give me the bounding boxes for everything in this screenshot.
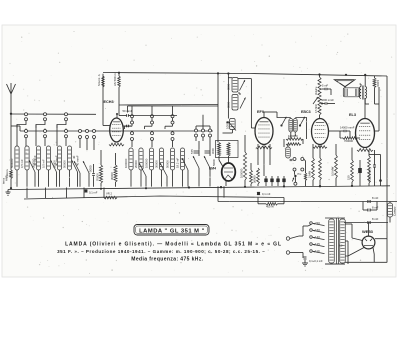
- junction dots ground bus more: [10, 187, 12, 189]
- svg-text:5000: 5000: [89, 165, 93, 172]
- wire IF1 winding tops: [228, 77, 232, 79]
- IF2 winding primary: [289, 119, 293, 133]
- resistor R EF9 screen: [257, 168, 260, 184]
- IF2 trimmer a: [282, 117, 287, 126]
- transformer core: [336, 218, 338, 264]
- wire HT line 2: [344, 222, 388, 224]
- svg-text:0,1 mF: 0,1 mF: [262, 192, 271, 196]
- svg-text:20000: 20000: [134, 160, 138, 168]
- switch PU arrow: [292, 178, 294, 182]
- switch contact S3a: [65, 113, 68, 116]
- switch contact S4b: [86, 130, 89, 133]
- svg-text:5000 mmF: 5000 mmF: [321, 98, 334, 102]
- wire rectifier cathode right: [375, 238, 387, 240]
- trimmer capacitor T5: [83, 161, 89, 173]
- resistor R EF9 cathode: [243, 152, 246, 180]
- transformer primary winding: [329, 219, 335, 263]
- svg-text:150: 150: [347, 175, 351, 180]
- capacitor block row: [265, 176, 267, 186]
- tube EL3 envelope: [356, 119, 375, 148]
- wire PU right: [304, 159, 306, 173]
- svg-text:0,5 mF: 0,5 mF: [42, 159, 46, 168]
- switch contact S2b: [44, 130, 47, 133]
- svg-text:575: 575: [190, 149, 194, 154]
- capacitor 5000 mmF: [324, 102, 326, 104]
- junction main bus: [257, 192, 260, 195]
- choke antenna lead: [10, 170, 13, 179]
- wire IF2 top feed: [277, 112, 291, 118]
- tube WE53 envelope: [362, 236, 375, 249]
- ground mains filter: [304, 260, 306, 263]
- oscillator coil shield box: [216, 141, 239, 158]
- coil L8: [139, 148, 143, 170]
- resistor R det 1: [286, 138, 303, 141]
- svg-text:2 MW: 2 MW: [308, 171, 312, 178]
- svg-text:8 mF: 8 mF: [372, 206, 379, 210]
- coil L2: [25, 146, 29, 170]
- resistor R det 2: [286, 143, 301, 146]
- wire field resistor down: [374, 88, 376, 105]
- svg-text:700000: 700000: [344, 139, 353, 143]
- svg-text:50000: 50000: [253, 175, 257, 183]
- svg-text:100000: 100000: [124, 158, 128, 168]
- switch contact S7a: [171, 115, 174, 118]
- wire osc col stub 132: [131, 106, 133, 115]
- wire top HT bus: [103, 73, 387, 77]
- svg-text:EBC3: EBC3: [301, 110, 311, 114]
- wire lower bus: [24, 196, 284, 199]
- trimmer capacitor T2: [51, 160, 57, 172]
- svg-text:50000: 50000: [53, 160, 57, 168]
- IF1 winding c: [230, 119, 236, 130]
- resistor R EL3 cathode: [351, 160, 354, 182]
- svg-text:400 W: 400 W: [266, 205, 274, 209]
- choke RF top left: [102, 76, 105, 87]
- svg-text:VR 2: VR 2: [106, 192, 112, 196]
- choke filter field coil: [388, 203, 393, 217]
- svg-text:0,1+0,1 mF: 0,1+0,1 mF: [309, 259, 323, 263]
- wire EF9 grid: [251, 127, 255, 129]
- wire antenna down-lead lower: [10, 179, 12, 189]
- wire EM4 feeds: [221, 165, 224, 166]
- resistor R EL3 grid: [343, 137, 357, 140]
- capacitor 8 mF c: [367, 221, 369, 224]
- svg-text:5000 mmF: 5000 mmF: [368, 168, 372, 182]
- antenna A1: [7, 84, 12, 94]
- switch contact S4a: [79, 130, 82, 133]
- wire osc coil bottoms: [218, 156, 220, 160]
- wire secondary center tap: [345, 240, 348, 242]
- wire choke links: [389, 202, 391, 204]
- resistor R EBC3 cathode: [312, 158, 315, 180]
- capacitor 50 mmF osc grid: [126, 114, 128, 117]
- junction dots bus: [220, 186, 222, 188]
- wire osc coupling: [217, 141, 219, 143]
- wire right lower vertical: [386, 202, 388, 263]
- IF1 winding a: [232, 78, 238, 93]
- svg-text:14000 mmF: 14000 mmF: [340, 126, 355, 130]
- title box: [134, 225, 209, 236]
- svg-text:0,5 mF: 0,5 mF: [20, 159, 24, 168]
- wire IF1 winding c bottom: [231, 130, 233, 134]
- choke detector: [286, 147, 291, 158]
- wire rectifier cathode out: [368, 223, 370, 237]
- switch contact S1b: [25, 130, 28, 133]
- wire coil group 1 bottoms: [38, 170, 40, 187]
- svg-text:30000: 30000: [110, 172, 114, 180]
- jack PU bottom terminal: [294, 182, 297, 185]
- svg-text:70000: 70000: [96, 173, 100, 181]
- resistor R PU: [304, 173, 306, 181]
- wire rectifier heater a: [345, 248, 364, 257]
- svg-text:0,5 MW: 0,5 MW: [331, 166, 335, 176]
- wire osc col stub 172.5: [172, 106, 174, 115]
- svg-text:5000: 5000: [212, 159, 216, 166]
- mains plug terminals: [286, 237, 289, 240]
- junction dots top bus: [118, 72, 120, 74]
- capacitor 0,1 mF bus: [257, 191, 260, 193]
- wire S4 drops: [79, 138, 81, 148]
- svg-text:Volume: Volume: [315, 86, 318, 95]
- potentiometer volume: [318, 77, 321, 115]
- coil L1: [15, 146, 19, 170]
- wire mains leads: [299, 235, 303, 237]
- wire EF9 anode: [263, 112, 265, 118]
- svg-text:8 mF: 8 mF: [372, 196, 379, 200]
- wire osc coil group 1: [151, 170, 153, 187]
- switch contact S3b: [65, 130, 68, 133]
- capacitor det: [289, 159, 291, 161]
- resistor mains dropper: [266, 203, 278, 206]
- svg-text:0,1 mF: 0,1 mF: [89, 191, 98, 195]
- switch contact S6b: [151, 132, 154, 135]
- switch contact S4c: [93, 130, 96, 133]
- mains switch: [290, 236, 299, 239]
- wire EL3 anode: [364, 98, 366, 119]
- wire IF2 secondary down: [306, 132, 308, 140]
- output transformer secondary: [365, 87, 367, 99]
- svg-text:500000: 500000: [10, 158, 14, 168]
- tube EBC3 heater: [313, 146, 327, 149]
- wire rectifier anode feed: [345, 223, 352, 225]
- svg-text:ECH3: ECH3: [104, 100, 114, 104]
- wire grid bus A y114: [11, 113, 96, 115]
- capacitor 5 mF tone: [324, 88, 326, 90]
- junction ECH3 anode: [116, 113, 118, 115]
- svg-text:EM4: EM4: [209, 167, 216, 171]
- svg-text:100000: 100000: [288, 134, 298, 138]
- wire selector to primary: [308, 225, 311, 227]
- junction PU: [294, 175, 296, 177]
- wire osc col 132: [131, 118, 133, 122]
- IF1 trimmer c: [228, 122, 236, 131]
- svg-text:0,5 MW: 0,5 MW: [315, 104, 318, 113]
- IF1 trimmer a: [240, 80, 246, 91]
- trimmer capacitor T3: [72, 160, 78, 172]
- wire column 45: [35, 125, 37, 147]
- wire column 66: [56, 125, 58, 147]
- wire IF1 feed vertical: [217, 74, 219, 143]
- wire IF1 links: [238, 78, 251, 80]
- wire osc cluster top: [196, 125, 210, 127]
- trimmer capacitor T8: [182, 158, 188, 170]
- svg-text:Media frequenza: 475 kHz.: Media frequenza: 475 kHz.: [131, 256, 203, 262]
- wire osc row link: [131, 115, 177, 117]
- svg-text:3000: 3000: [211, 148, 215, 154]
- IF1 trimmer b: [240, 98, 246, 109]
- trimmer capacitor T1: [29, 160, 35, 172]
- capacitor filter 8 mF a: [367, 200, 369, 203]
- wire ECH3 anode stub: [116, 115, 118, 119]
- svg-text:50000: 50000: [63, 160, 67, 168]
- tube EF9 heater: [256, 146, 272, 149]
- IF1 winding b: [232, 95, 238, 111]
- svg-text:LAMDA (Olivieri e Glisenti).: LAMDA (Olivieri e Glisenti). — Modelli «…: [65, 241, 282, 247]
- resistor R EBC3 grid leak: [319, 158, 322, 180]
- coil L6: [67, 146, 71, 170]
- wire osc col 152: [151, 118, 153, 122]
- wire EM4 bottom: [225, 181, 227, 186]
- wire screen feed: [364, 99, 366, 105]
- trimmer capacitor T4: [74, 161, 80, 173]
- resistor R screen: [114, 165, 117, 182]
- tube EL3 heater: [357, 149, 373, 152]
- coil L12: [180, 148, 184, 170]
- wire return drops left: [26, 188, 28, 199]
- switch contact S6a: [151, 115, 154, 118]
- svg-text:3000: 3000: [226, 83, 230, 90]
- trimmer capacitor T6: [139, 163, 146, 176]
- wire osc col stub 152: [151, 106, 153, 115]
- wire transformer bottom frame: [325, 263, 345, 265]
- wire det links: [283, 139, 285, 147]
- wire PU links: [294, 171, 296, 175]
- resistor R EBC3 anode load: [335, 155, 338, 178]
- speaker motor box: [343, 88, 359, 97]
- wire EL3 screen: [375, 130, 380, 132]
- wire EM4 lower: [223, 186, 225, 197]
- svg-text:P.U.: P.U.: [298, 173, 303, 176]
- earth symbol: [7, 190, 9, 193]
- tube ECH3 envelope: [110, 118, 124, 142]
- svg-text:3000: 3000: [226, 101, 230, 108]
- IF2 trimmer b: [300, 117, 305, 126]
- wire filter top: [351, 201, 397, 203]
- wire coil group 2 bottoms: [59, 170, 61, 187]
- svg-text:8 mF: 8 mF: [372, 217, 379, 221]
- switch contact S5b: [131, 132, 134, 135]
- wire antenna down-lead upper: [10, 94, 12, 170]
- wire bottom return: [345, 261, 387, 263]
- scanned page area: [2, 25, 396, 277]
- svg-text:1000: 1000: [376, 80, 380, 87]
- wire osc grid top link: [128, 105, 219, 107]
- switch contact S7b: [171, 132, 174, 135]
- wire EF9 cathode leads: [257, 144, 259, 165]
- svg-text:EL3: EL3: [349, 113, 356, 117]
- svg-text:500000: 500000: [32, 158, 36, 168]
- switch cluster oscillator range: [195, 129, 198, 132]
- wire coil group 0 bottoms: [16, 170, 18, 187]
- wire EL3 grid link: [349, 131, 351, 138]
- junction pot tap: [321, 103, 323, 105]
- capacitor mains filter: [304, 256, 307, 258]
- coil oscillator primary: [218, 143, 221, 157]
- svg-text:LAMDA " GL 351 M ": LAMDA " GL 351 M ": [139, 229, 205, 235]
- svg-text:100000: 100000: [145, 158, 149, 168]
- coil L9: [149, 148, 153, 170]
- wire left bus link: [19, 126, 21, 131]
- resistor R hum: [104, 196, 117, 199]
- coil L3: [36, 146, 40, 170]
- capacitor ECH3 grid2: [126, 125, 128, 128]
- coil L10: [159, 148, 163, 170]
- jack PU terminals: [293, 158, 296, 161]
- tube EF9 envelope: [255, 118, 273, 145]
- wire IF2 out right: [295, 118, 306, 132]
- trimmer capacitor T10: [204, 156, 210, 168]
- speaker cone: [334, 80, 355, 87]
- svg-text:5 mF: 5 mF: [322, 84, 328, 88]
- svg-text:351 F. ». – Produzione 1940-19: 351 F. ». – Produzione 1940-1941. – Gamm…: [57, 249, 265, 254]
- junction IF1: [226, 121, 228, 123]
- resistor R cathode: [99, 165, 102, 183]
- wire heater bus: [217, 186, 219, 201]
- svg-text:Campo: Campo: [393, 206, 397, 216]
- trimmer capacitor T7: [160, 163, 167, 176]
- transformer secondary winding: [340, 219, 346, 263]
- wire IF1 left vertical: [227, 74, 229, 119]
- capacitor filter 8 mF b: [367, 209, 369, 212]
- tube EBC3 envelope: [312, 119, 329, 145]
- svg-text:18.2 mF: 18.2 mF: [176, 157, 180, 168]
- svg-text:AS 500 m: AS 500 m: [113, 73, 117, 86]
- wire grid bus B y131: [20, 130, 213, 132]
- resistor R EL3 bias: [368, 156, 371, 183]
- wire output transformer top: [364, 76, 366, 87]
- output transformer primary: [360, 87, 362, 99]
- capacitor EL3 cathode bypass: [359, 160, 361, 186]
- wire speaker cone link: [344, 86, 346, 89]
- svg-text:50000: 50000: [166, 160, 170, 168]
- svg-text:WE53: WE53: [362, 229, 374, 234]
- svg-text:30000: 30000: [155, 160, 159, 168]
- capacitor tone EL3: [373, 164, 376, 166]
- trimmer capacitor T9: [193, 156, 199, 168]
- capacitor 14 mmF coupling: [343, 130, 345, 132]
- wire osc col 172.5: [172, 118, 174, 122]
- junction EL3 bias: [379, 179, 382, 182]
- tube ECH3 heater: [109, 143, 124, 146]
- svg-text:EF9: EF9: [257, 110, 264, 114]
- wire EL3 bias loop: [369, 154, 381, 156]
- coil L11: [170, 148, 174, 170]
- switch contact S2a: [44, 113, 47, 116]
- choke RF top right: [118, 76, 121, 87]
- wire transformer frame: [325, 217, 345, 219]
- IF2 winding secondary: [293, 119, 297, 133]
- wire ground bus: [8, 186, 390, 190]
- coil oscillator secondary: [227, 143, 230, 157]
- wire IF2 bottoms: [290, 132, 292, 139]
- coil L7: [129, 148, 133, 170]
- wire oscillator top link: [119, 104, 218, 107]
- switch contact S5a: [131, 115, 134, 118]
- wire osc coil group 2: [172, 170, 174, 187]
- switch contact S1a: [25, 113, 28, 116]
- capacitor 0,1 mF left: [85, 189, 88, 192]
- resistor R field shunt: [373, 78, 376, 88]
- wire rectifier heater b: [373, 248, 374, 263]
- wire right HT vertical: [386, 76, 388, 202]
- resistor R AVC: [250, 170, 253, 184]
- wire pot to grid: [319, 115, 321, 119]
- wire osc coil group 0: [130, 170, 132, 187]
- coil L5: [57, 146, 61, 170]
- wire EL3 bias down: [380, 181, 382, 186]
- scan speckle noise: [7, 31, 395, 274]
- tube EM4 envelope: [222, 163, 236, 181]
- junction antenna bus: [10, 113, 12, 115]
- wire ECH3 top-cap lead: [102, 74, 104, 126]
- coil L4: [46, 146, 50, 170]
- svg-text:100000: 100000: [240, 168, 244, 178]
- wire column 26: [16, 125, 18, 147]
- voltage selector taps: [310, 222, 313, 225]
- pot wiper arrow: [313, 97, 318, 104]
- wire ECH3 grid to cap: [119, 115, 122, 117]
- svg-text:Smorz. A: Smorz. A: [97, 74, 101, 86]
- svg-text:terra: terra: [2, 178, 6, 184]
- output transformer core: [361, 86, 363, 100]
- capacitor C cathode: [92, 173, 95, 175]
